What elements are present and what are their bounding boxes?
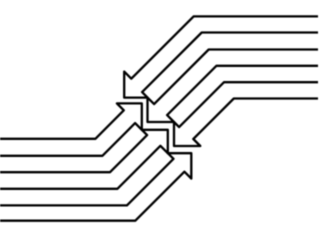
arrow down-left B1 (head at 124.2,97.6) (124, 16, 320, 97)
arrow up-right A2 (head at 167.8,129.8) (0, 130, 168, 189)
arrow up-right A1 (head at 141.8,103.4) (0, 103, 142, 155)
arrow down-left B3 (head at 174.0,146.0) (174, 82, 320, 146)
arrow down-left B2 (head at 147.5,122.0) (148, 50, 320, 123)
arrow up-right A3 (head at 191.3,153.2) (0, 153, 191, 221)
